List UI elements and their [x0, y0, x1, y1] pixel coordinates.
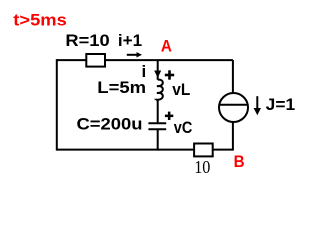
svg-text:t>5ms: t>5ms [13, 11, 67, 30]
wire middle branch upper [157, 60, 159, 80]
arrow current i [154, 71, 161, 79]
wire left [56, 59, 58, 151]
svg-text:A: A [161, 37, 172, 56]
arrow current i+1 [127, 52, 142, 57]
wire right lower [232, 122, 234, 151]
plus sign vC [165, 112, 173, 120]
svg-text:C=200u: C=200u [77, 115, 143, 134]
current source J1 [219, 93, 248, 122]
svg-text:i+1: i+1 [118, 31, 142, 50]
plus sign vL [165, 70, 174, 79]
svg-text:vL: vL [172, 80, 190, 99]
wire middle branch mid [157, 101, 159, 123]
arrow current J [254, 96, 261, 115]
wire bottom [57, 149, 233, 151]
svg-text:10: 10 [194, 157, 210, 177]
wire middle branch lower [157, 130, 159, 151]
svg-text:R=10: R=10 [65, 31, 109, 50]
svg-text:vC: vC [174, 118, 193, 137]
resistor R2 [194, 144, 213, 157]
wire top [57, 59, 233, 61]
wire right upper [232, 60, 234, 93]
resistor R1 [86, 54, 105, 67]
svg-text:J=1: J=1 [266, 95, 295, 114]
svg-text:B: B [234, 152, 245, 171]
capacitor C1 [148, 123, 166, 129]
inductor L1 [157, 80, 163, 101]
svg-text:L=5m: L=5m [97, 78, 146, 97]
